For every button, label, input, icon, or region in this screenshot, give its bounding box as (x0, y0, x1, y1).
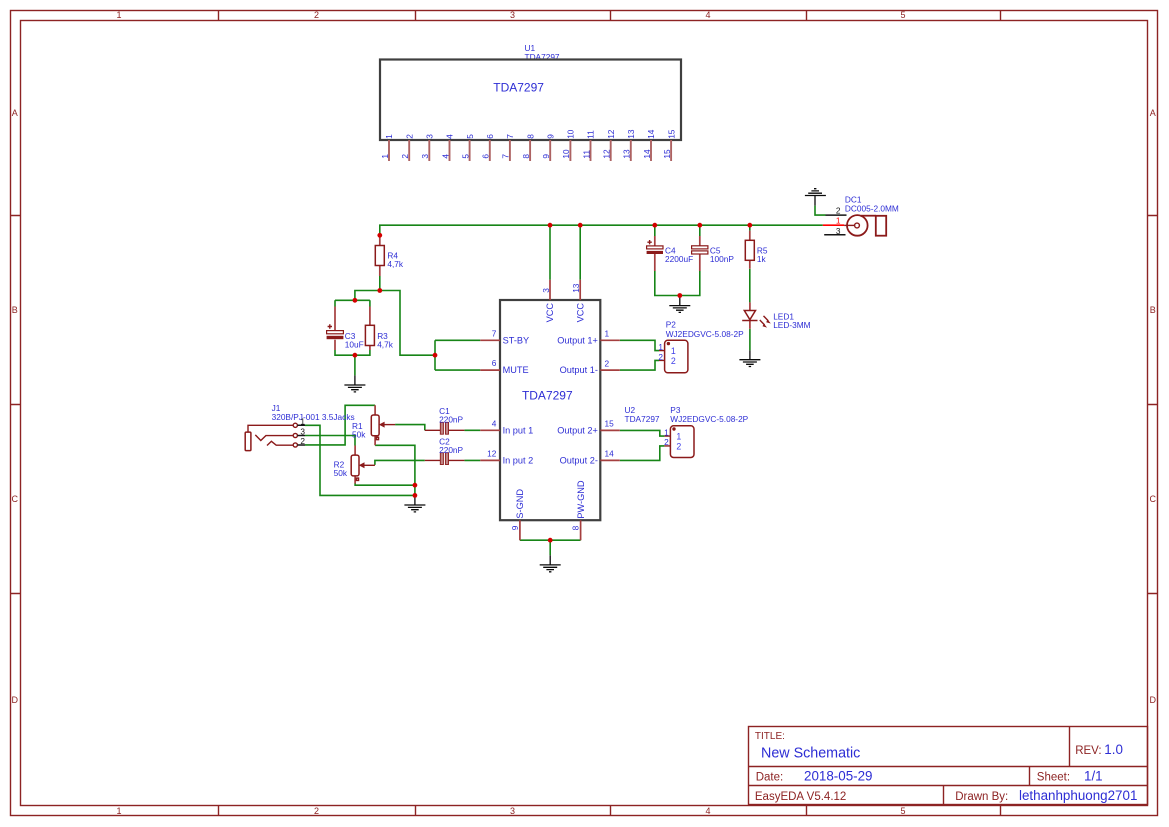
svg-text:12: 12 (602, 149, 612, 159)
svg-text:3: 3 (425, 134, 435, 139)
potentiometer R1 50k (352, 405, 395, 445)
ground (LED1) (739, 350, 760, 366)
chip U1 TDA7297 (unconnected symbol) (380, 43, 681, 140)
svg-text:4: 4 (705, 10, 710, 20)
junction dots (353, 223, 753, 543)
U1 pin number labels (below) (380, 149, 672, 159)
wire R2 bottom to ground (355, 484, 415, 486)
svg-text:5: 5 (900, 10, 905, 20)
svg-text:In put 1: In put 1 (503, 425, 534, 435)
wire to MUTE pin (435, 369, 480, 371)
svg-text:1: 1 (605, 329, 610, 339)
svg-text:220nP: 220nP (439, 445, 463, 455)
svg-text:A: A (12, 108, 18, 118)
svg-text:14: 14 (605, 449, 615, 459)
svg-text:1: 1 (836, 216, 841, 226)
svg-text:5: 5 (465, 134, 475, 139)
svg-text:LED-3MM: LED-3MM (773, 320, 810, 330)
resistor R3 (365, 307, 393, 351)
svg-text:7: 7 (501, 154, 511, 159)
svg-text:1: 1 (300, 416, 305, 426)
svg-text:TDA7297: TDA7297 (493, 81, 544, 95)
svg-text:S-GND: S-GND (515, 489, 525, 519)
chip U2 TDA7297 (main IC) (500, 300, 600, 520)
svg-text:10: 10 (566, 129, 576, 139)
wire C5 top (699, 225, 701, 236)
wire R4 bottom (379, 276, 381, 291)
wire S-GND/PW-GND bus (520, 539, 581, 541)
svg-text:4: 4 (705, 806, 710, 816)
wire C4 top (654, 225, 656, 236)
wire output1- to P2 (620, 360, 659, 370)
svg-text:New Schematic: New Schematic (761, 745, 860, 761)
svg-text:15: 15 (605, 419, 615, 429)
U1 pins 1-15 (389, 140, 671, 161)
svg-text:1: 1 (671, 346, 676, 356)
svg-text:1.0: 1.0 (1104, 742, 1123, 757)
svg-text:8: 8 (571, 525, 581, 530)
title block (749, 727, 1148, 805)
svg-text:9: 9 (541, 154, 551, 159)
svg-text:Output 1+: Output 1+ (557, 335, 598, 345)
svg-text:4: 4 (440, 154, 450, 159)
svg-text:100nP: 100nP (710, 254, 734, 264)
svg-text:320B/PJ-001 3.5Jacks: 320B/PJ-001 3.5Jacks (272, 412, 355, 422)
svg-text:TITLE:: TITLE: (755, 731, 785, 742)
svg-text:4: 4 (445, 134, 455, 139)
svg-text:2: 2 (676, 442, 681, 452)
svg-text:6: 6 (492, 358, 497, 368)
connector P2 WJ2EDGVC-5.08-2P (658, 320, 744, 373)
wire DC1 pin2 to ground (815, 206, 826, 216)
wire feed to ST-BY/MUTE (380, 291, 435, 356)
svg-text:5: 5 (900, 806, 905, 816)
connector DC1 DC005-2.0MM (823, 194, 899, 236)
svg-text:8: 8 (525, 134, 535, 139)
svg-text:2: 2 (400, 154, 410, 159)
svg-text:2: 2 (605, 358, 610, 368)
svg-text:C: C (12, 494, 19, 504)
wire J1 pin2 to R1 (305, 405, 375, 445)
ground (DC1, flipped) (805, 189, 826, 206)
wire R4 to C3/R3 (355, 291, 380, 301)
ground (J1/pots) (404, 495, 425, 512)
wire VCC drop pin13 (579, 225, 581, 280)
wire C1 to IC pin4 (464, 429, 480, 431)
svg-text:1/1: 1/1 (1084, 768, 1103, 783)
U1 body rectangle (380, 60, 681, 141)
svg-text:Drawn By:: Drawn By: (955, 791, 1008, 803)
svg-text:1: 1 (380, 154, 390, 159)
U1 pin name labels (inside) (384, 129, 676, 139)
svg-text:7: 7 (505, 134, 515, 139)
svg-text:1: 1 (664, 427, 669, 437)
svg-text:2200uF: 2200uF (665, 254, 693, 264)
svg-text:15: 15 (666, 129, 676, 139)
svg-text:14: 14 (642, 149, 652, 159)
svg-text:1: 1 (116, 10, 121, 20)
svg-text:C: C (1150, 494, 1157, 504)
svg-text:3: 3 (510, 10, 515, 20)
svg-text:50k: 50k (334, 468, 348, 478)
svg-text:lethanhphuong2701: lethanhphuong2701 (1019, 788, 1137, 803)
svg-text:2: 2 (671, 356, 676, 366)
svg-text:8: 8 (521, 154, 531, 159)
wire R5 to LED1 (749, 269, 751, 303)
svg-text:10uF: 10uF (345, 340, 364, 350)
svg-text:PW-GND: PW-GND (576, 480, 586, 518)
svg-text:1: 1 (116, 806, 121, 816)
svg-text:In put 2: In put 2 (503, 455, 534, 465)
wire C4/C5 bottom bus (655, 271, 700, 296)
svg-text:5: 5 (460, 154, 470, 159)
svg-text:3: 3 (420, 154, 430, 159)
svg-text:13: 13 (626, 129, 636, 139)
svg-text:10: 10 (561, 149, 571, 159)
capacitor C2 220nP (425, 437, 465, 465)
svg-text:3: 3 (510, 806, 515, 816)
svg-text:3: 3 (300, 427, 305, 437)
wire R1 bottom to ground (375, 445, 415, 495)
svg-text:2: 2 (664, 437, 669, 447)
svg-text:D: D (1150, 695, 1157, 705)
svg-text:WJ2EDGVC-5.08-2P: WJ2EDGVC-5.08-2P (666, 329, 744, 339)
svg-text:A: A (1150, 108, 1156, 118)
potentiometer R2 50k (334, 446, 375, 484)
svg-text:Output 2+: Output 2+ (557, 425, 598, 435)
wire C2 to IC pin12 (464, 459, 480, 461)
svg-text:15: 15 (662, 149, 672, 159)
svg-text:1: 1 (384, 134, 394, 139)
svg-text:220nP: 220nP (439, 415, 463, 425)
svg-text:VCC: VCC (545, 303, 555, 323)
svg-text:EasyEDA V5.4.12: EasyEDA V5.4.12 (755, 791, 846, 803)
ground (S-GND/PW-GND) (540, 555, 561, 572)
svg-text:6: 6 (481, 154, 491, 159)
svg-text:2: 2 (836, 206, 841, 216)
wire output1+ to P2 (620, 340, 659, 350)
connector P3 WJ2EDGVC-5.08-2P (664, 405, 749, 458)
capacitor C4 2200uF (647, 236, 694, 271)
svg-text:DC005-2.0MM: DC005-2.0MM (845, 203, 899, 213)
connector J1 320B/PJ-001 3.5Jacks (245, 403, 354, 451)
svg-text:11: 11 (586, 130, 596, 139)
svg-text:MUTE: MUTE (503, 365, 529, 375)
wire J1 pin1 to ground rail (305, 425, 415, 495)
wire LED1 to ground (749, 329, 751, 351)
svg-text:2: 2 (314, 806, 319, 816)
wire to ST-BY pin (435, 339, 480, 341)
svg-text:1k: 1k (757, 254, 767, 264)
wire R5 top (749, 225, 751, 230)
svg-text:2: 2 (658, 352, 663, 362)
svg-text:4,7k: 4,7k (387, 259, 404, 269)
svg-text:4: 4 (492, 418, 497, 428)
svg-text:B: B (12, 305, 18, 315)
capacitor C1 220nP (425, 406, 465, 434)
resistor R4 (375, 235, 404, 276)
wire output2- to P3 (620, 446, 665, 461)
svg-text:3: 3 (836, 226, 841, 236)
capacitor C5 100nP (692, 236, 735, 271)
wire R2 wiper to C2 (375, 460, 425, 465)
svg-text:12: 12 (487, 449, 497, 459)
svg-text:1: 1 (676, 431, 681, 441)
ground (C4/C5) (669, 296, 690, 313)
svg-text:13: 13 (571, 283, 581, 293)
svg-text:WJ2EDGVC-5.08-2P: WJ2EDGVC-5.08-2P (670, 414, 748, 424)
svg-text:ST-BY: ST-BY (503, 335, 530, 345)
svg-text:1: 1 (658, 342, 663, 352)
svg-text:14: 14 (646, 129, 656, 139)
resistor R5 1k (745, 231, 768, 269)
wire IC ground stem (549, 540, 551, 555)
ground (C3/R3) (344, 375, 365, 392)
capacitor C3 (327, 307, 364, 351)
svg-text:Output 2-: Output 2- (560, 455, 598, 465)
svg-text:12: 12 (606, 129, 616, 139)
svg-text:2: 2 (314, 10, 319, 20)
wire C3/R3 top bus (335, 300, 370, 306)
svg-text:9: 9 (545, 134, 555, 139)
LED1 LED-3MM (742, 302, 810, 330)
wire ST-BY/MUTE vertical (434, 340, 436, 370)
U2 pin stubs (480, 280, 620, 540)
wire C3/R3 bottom bus (335, 350, 370, 355)
svg-text:Output 1-: Output 1- (560, 365, 598, 375)
svg-text:TDA7297: TDA7297 (522, 389, 573, 403)
svg-text:2: 2 (404, 134, 414, 139)
wire VCC drop pin3 (549, 225, 551, 280)
svg-text:B: B (1150, 305, 1156, 315)
svg-text:Date:: Date: (756, 771, 784, 783)
wire R1 wiper to C1 (395, 425, 425, 431)
svg-text:TDA7297: TDA7297 (625, 414, 660, 424)
svg-text:Sheet:: Sheet: (1037, 771, 1070, 783)
svg-text:50k: 50k (352, 430, 366, 440)
svg-text:7: 7 (492, 328, 497, 338)
wire VCC rail (380, 225, 823, 235)
svg-text:VCC: VCC (575, 303, 585, 323)
svg-text:REV:: REV: (1075, 745, 1101, 757)
svg-text:3: 3 (541, 288, 551, 293)
wire output2+ to P3 (620, 430, 665, 436)
wire J1 pin3 to R2 (305, 436, 355, 446)
svg-text:13: 13 (622, 149, 632, 159)
wire to ground (C3/R3) (354, 355, 356, 375)
svg-text:D: D (12, 695, 19, 705)
svg-text:2018-05-29: 2018-05-29 (804, 768, 873, 783)
svg-text:9: 9 (510, 525, 520, 530)
svg-text:6: 6 (485, 134, 495, 139)
svg-text:11: 11 (581, 150, 591, 159)
svg-text:2: 2 (300, 436, 305, 446)
svg-text:4,7k: 4,7k (377, 340, 394, 350)
